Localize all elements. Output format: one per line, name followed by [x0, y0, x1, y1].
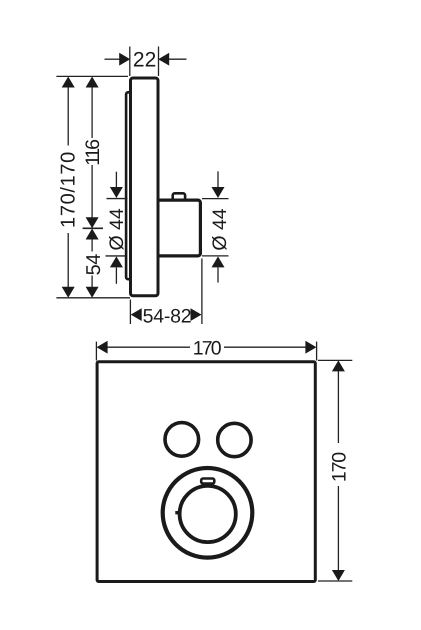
svg-text:54-82: 54-82 [143, 305, 192, 327]
svg-text:Ø 44: Ø 44 [209, 208, 231, 250]
svg-text:170/170: 170/170 [57, 151, 79, 228]
svg-text:22: 22 [133, 49, 156, 72]
svg-text:54: 54 [83, 254, 105, 276]
svg-text:116: 116 [82, 140, 104, 166]
svg-text:Ø 44: Ø 44 [106, 208, 128, 250]
svg-text:170: 170 [193, 338, 222, 360]
svg-text:170: 170 [329, 452, 351, 482]
